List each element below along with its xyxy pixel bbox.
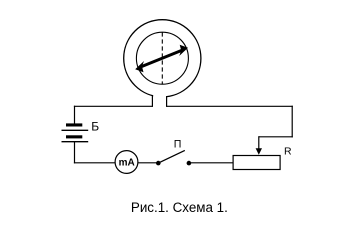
battery B1 top thick plate [66,123,82,126]
svg-text:Б: Б [91,120,99,134]
label R rheostat [284,145,292,157]
wire middle horizontal to wiper [259,136,293,138]
wire left vertical below battery [74,142,76,163]
battery B1 bottom thin plate [62,141,89,143]
wire bottom to milliammeter [74,162,115,164]
wire top bus right segment [167,105,293,107]
switch S1 left contact node [156,161,161,166]
svg-text:Рис.1. Схема 1.: Рис.1. Схема 1. [131,200,228,215]
wire top bus left segment [74,105,152,107]
svg-text:R: R [284,145,292,157]
galvanometer neck right line [166,96,168,107]
milliammeter mA body [115,151,138,174]
wire left vertical to battery [74,106,76,124]
switch S1 lever [158,150,185,163]
wire right vertical from top bus [291,106,293,138]
galvanometer needle double arrow [135,45,188,73]
svg-text:П: П [174,138,182,150]
galvanometer dashed axis line [161,32,163,84]
rheostat wiper arrow [256,136,262,155]
battery B1 bottom thick plate [66,135,82,138]
label Б battery [91,120,99,134]
wire milliammeter to switch [138,162,158,164]
rheostat R body [233,156,280,170]
wire switch to rheostat [189,162,233,164]
caption figure title [131,200,228,215]
switch S1 right contact node [187,161,192,166]
label П switch [174,138,182,150]
galvanometer U1 inner dial [136,32,188,84]
galvanometer U1 outer case [124,20,201,100]
galvanometer neck left line [151,95,153,107]
svg-text:mA: mA [119,158,135,169]
battery B1 top thin plate [62,129,89,131]
